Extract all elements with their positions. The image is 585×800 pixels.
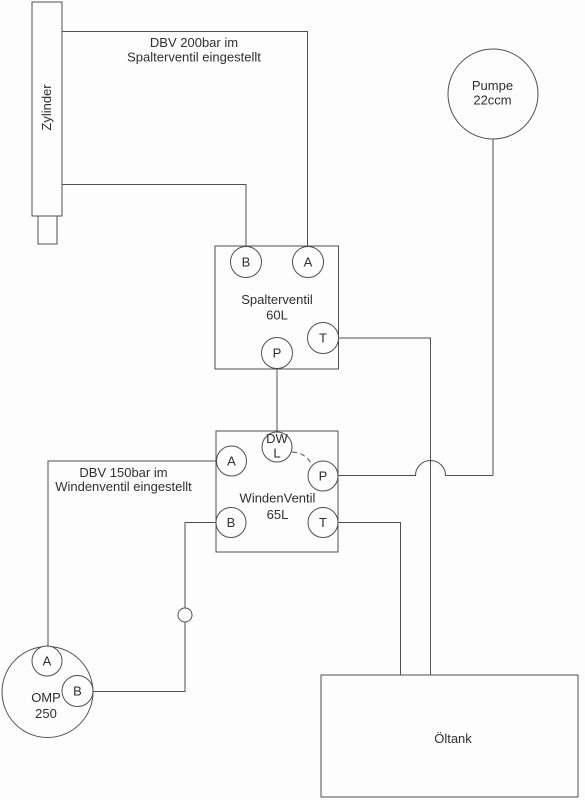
svg-text:A: A (304, 255, 313, 270)
label WindenVentil 65L (240, 491, 316, 523)
svg-text:A: A (227, 454, 236, 469)
svg-text:Spalterventil eingestellt: Spalterventil eingestellt (127, 50, 261, 65)
junction circle on B wire (178, 608, 192, 622)
wire Windenventil T to Öltank (338, 523, 401, 676)
pump circle Pumpe 22ccm (448, 49, 538, 139)
cylinder Zylinder body (32, 2, 62, 216)
wire Windenventil P to pump line with hop over T wire (338, 461, 493, 476)
wire cylinder bottom to Spalterventil port B (62, 185, 246, 247)
motor circle OMP 250 (2, 647, 93, 738)
svg-text:B: B (242, 255, 251, 270)
wire cylinder top to Spalterventil port A (62, 32, 308, 247)
svg-text:DBV 200bar im: DBV 200bar im (150, 35, 238, 50)
note DBV 150bar im Windenventil eingestellt (55, 465, 192, 494)
port P of WindenVentil (308, 461, 338, 491)
note DBV 200bar im Spalterventil eingestellt (127, 35, 261, 65)
svg-text:OMP: OMP (31, 690, 61, 705)
svg-text:Spalterventil: Spalterventil (241, 292, 313, 307)
svg-text:22ccm: 22ccm (473, 93, 511, 108)
port A of Spalterventil (293, 247, 324, 278)
svg-text:Pumpe: Pumpe (472, 78, 513, 93)
svg-text:P: P (319, 469, 328, 484)
svg-text:DBV 150bar im: DBV 150bar im (79, 465, 167, 480)
tank box Öltank (321, 675, 578, 797)
port B of WindenVentil (216, 508, 246, 538)
cylinder rod (38, 216, 57, 244)
svg-text:DW: DW (266, 431, 288, 446)
port T of Spalterventil (308, 323, 339, 354)
svg-text:B: B (73, 684, 82, 699)
wire Windenventil B to OMP B (93, 523, 216, 692)
svg-text:Öltank: Öltank (434, 731, 472, 746)
port DW L of WindenVentil (262, 431, 292, 462)
wire pump down to P line (492, 139, 494, 476)
port A of WindenVentil (217, 446, 247, 476)
svg-text:P: P (273, 346, 282, 361)
svg-text:WindenVentil: WindenVentil (240, 491, 316, 506)
svg-text:A: A (43, 654, 52, 669)
valve box Spalterventil (215, 246, 339, 369)
svg-text:250: 250 (35, 706, 57, 721)
svg-text:B: B (227, 515, 236, 530)
port P of Spalterventil (262, 338, 293, 369)
dashed link DW L to P (292, 452, 312, 464)
svg-text:Windenventil eingestellt: Windenventil eingestellt (55, 479, 192, 494)
valve box WindenVentil (216, 431, 338, 552)
port B of Spalterventil (231, 247, 262, 278)
port T of WindenVentil (308, 508, 338, 538)
svg-text:L: L (273, 446, 280, 461)
svg-text:60L: 60L (266, 308, 288, 323)
wire Windenventil A to OMP A (48, 461, 216, 646)
wire Spalterventil T to Öltank (339, 338, 431, 675)
svg-text:Zylinder: Zylinder (39, 84, 54, 131)
port B of OMP (62, 676, 93, 707)
port A of OMP (32, 646, 62, 676)
svg-text:T: T (319, 515, 327, 530)
label Spalterventil 60L (241, 292, 313, 323)
svg-text:T: T (319, 331, 327, 346)
svg-text:65L: 65L (267, 507, 289, 522)
wire Spalterventil P to Windenventil DW/L (276, 369, 278, 433)
